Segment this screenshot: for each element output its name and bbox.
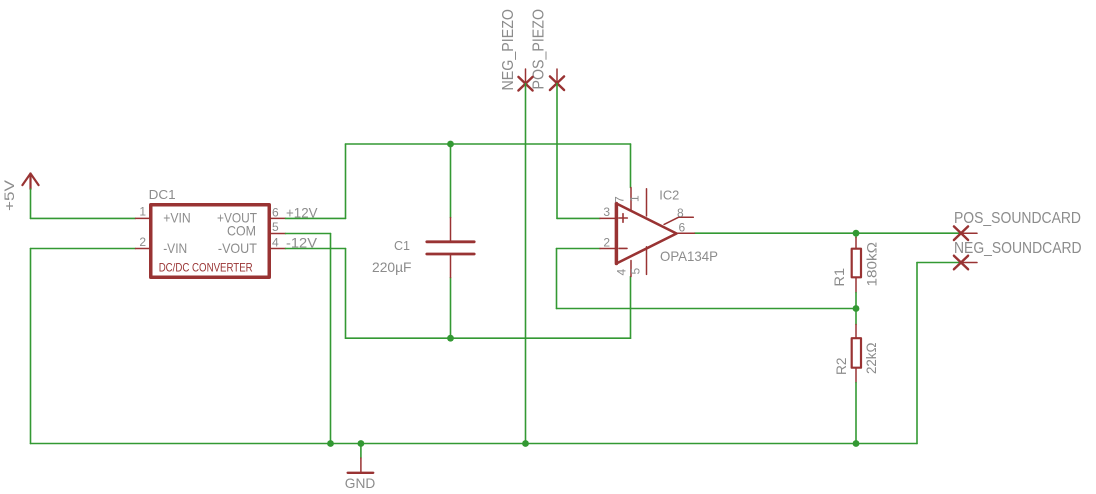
svg-text:DC1: DC1 <box>149 188 176 202</box>
svg-text:+VIN: +VIN <box>163 210 191 226</box>
junction dot capacitor bottom <box>447 335 454 342</box>
svg-text:4: 4 <box>272 236 279 250</box>
svg-text:1: 1 <box>628 195 642 202</box>
pin 4 stub <box>271 248 286 250</box>
pin 5 stub <box>271 233 286 235</box>
svg-text:2: 2 <box>603 235 610 249</box>
resistor R2 <box>852 325 861 383</box>
wire feedback vertical <box>556 249 558 309</box>
junction dot capacitor top <box>447 141 454 148</box>
junction dot R2 at rail <box>853 440 860 447</box>
svg-text:220µF: 220µF <box>372 259 412 275</box>
wire -12V riser to op-amp pin 4 <box>630 277 632 339</box>
wire POS_PIEZO vertical <box>556 84 558 219</box>
svg-text:6: 6 <box>679 221 686 235</box>
wire +5V net horizontal to DC1 pin 1 <box>31 217 136 219</box>
terminal X NEG_SOUNDCARD <box>954 256 977 270</box>
resistor R1 <box>852 238 861 293</box>
ground symbol GND <box>345 444 376 492</box>
junction dot COM at rail <box>327 440 334 447</box>
pin 7 stub <box>630 188 632 211</box>
pin 1 stub <box>136 217 150 219</box>
svg-text:R1: R1 <box>831 268 847 287</box>
supply symbol +5V arrow <box>22 174 38 190</box>
pin 8 stub <box>664 217 693 224</box>
wire ground bottom rail <box>31 443 918 445</box>
svg-text:NEG_PIEZO: NEG_PIEZO <box>500 9 517 91</box>
wire NEG_SOUNDCARD riser <box>916 263 918 444</box>
svg-text:COM: COM <box>227 223 256 239</box>
wire R1 top connection <box>855 233 857 237</box>
svg-text:OPA134P: OPA134P <box>660 248 718 264</box>
wire +12V top rail <box>346 143 631 145</box>
svg-text:-VOUT: -VOUT <box>218 240 257 256</box>
svg-text:NEG_SOUNDCARD: NEG_SOUNDCARD <box>954 240 1082 257</box>
svg-text:6: 6 <box>272 206 279 220</box>
wire NEG_PIEZO vertical <box>525 84 527 444</box>
plus marker <box>619 214 628 223</box>
junction dot R1/R2 feedback <box>853 305 860 312</box>
wire R2 top connection <box>855 309 857 325</box>
wire -VIN net vertical down to ground rail <box>30 249 32 444</box>
junction dot R1 top <box>853 230 860 237</box>
svg-text:+5V: +5V <box>1 179 17 211</box>
svg-text:POS_SOUNDCARD: POS_SOUNDCARD <box>954 210 1081 227</box>
pin 3 stub <box>600 217 616 219</box>
pin 2 stub <box>136 248 150 250</box>
wire +12V net riser <box>345 144 347 218</box>
svg-text:C1: C1 <box>394 239 410 253</box>
wire POS_PIEZO to op-amp pin 3 <box>557 217 600 219</box>
svg-text:1: 1 <box>139 205 146 219</box>
capacitor C1 <box>427 218 474 278</box>
wire inverting input from op-amp pin 2 <box>557 248 601 250</box>
terminal X POS_PIEZO <box>550 69 564 90</box>
pin 5 stub <box>646 247 648 275</box>
svg-text:22kΩ: 22kΩ <box>863 343 879 374</box>
wire +12V net horizontal from pin 6 <box>286 217 346 219</box>
pin 6 stub <box>677 232 695 234</box>
svg-text:GND: GND <box>345 475 376 491</box>
wire +5V net vertical <box>30 189 32 218</box>
op-amp IC2 <box>600 188 718 277</box>
wire COM net horizontal from pin 5 <box>286 233 331 235</box>
wire -12V net riser down <box>345 249 347 339</box>
wire R1 bottom connection <box>855 293 857 309</box>
wire capacitor bottom connection <box>450 278 452 339</box>
junction dot NEG_PIEZO at rail <box>522 440 529 447</box>
wire -12V bottom rail <box>346 337 631 339</box>
terminal X POS_SOUNDCARD <box>954 226 977 240</box>
svg-text:R2: R2 <box>833 357 849 375</box>
svg-text:180kΩ: 180kΩ <box>864 242 880 287</box>
pin 4 stub <box>630 261 632 277</box>
svg-text:7: 7 <box>613 196 627 203</box>
terminal X NEG_PIEZO <box>518 69 532 91</box>
pin 1 stub <box>646 189 648 216</box>
svg-text:4: 4 <box>615 269 629 276</box>
svg-text:IC2: IC2 <box>659 189 679 203</box>
pin 2 stub <box>600 248 616 250</box>
svg-text:DC/DC CONVERTER: DC/DC CONVERTER <box>159 261 253 275</box>
wire -VIN net horizontal from DC1 pin 2 <box>31 248 136 250</box>
DC/DC converter DC1 <box>136 188 286 277</box>
svg-text:5: 5 <box>272 220 279 234</box>
svg-text:-VIN: -VIN <box>163 240 187 256</box>
svg-text:5: 5 <box>629 268 643 275</box>
pin 6 stub <box>271 217 286 219</box>
svg-text:2: 2 <box>139 235 146 249</box>
svg-text:3: 3 <box>603 205 610 219</box>
junction dot GND at rail <box>358 440 365 447</box>
wire -12V net horizontal from pin 4 <box>286 248 346 250</box>
wire +12V drop to op-amp pin 7 <box>630 144 632 188</box>
wire COM net vertical to ground rail <box>330 234 332 444</box>
wire feedback horizontal to divider <box>557 308 857 310</box>
wire output net <box>694 232 961 234</box>
wire NEG_SOUNDCARD horizontal <box>917 262 961 264</box>
wire R2 bottom connection <box>855 383 857 444</box>
minus marker <box>619 247 627 249</box>
svg-text:8: 8 <box>677 206 684 220</box>
wire capacitor top connection <box>450 144 452 218</box>
